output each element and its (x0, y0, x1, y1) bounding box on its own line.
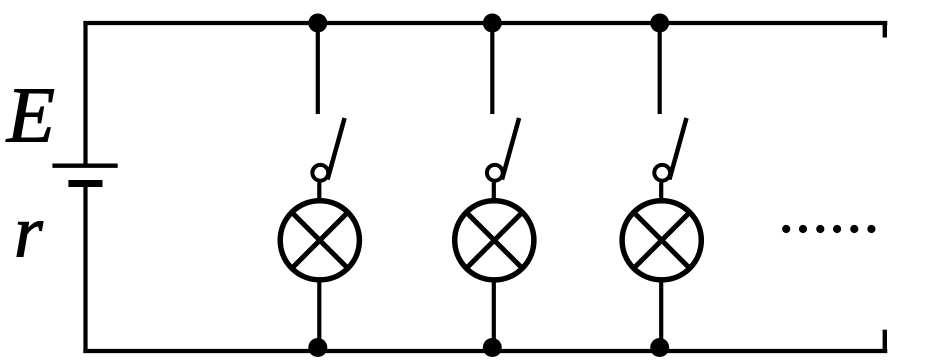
svg-text:r: r (14, 192, 44, 274)
svg-text:E: E (6, 73, 55, 160)
